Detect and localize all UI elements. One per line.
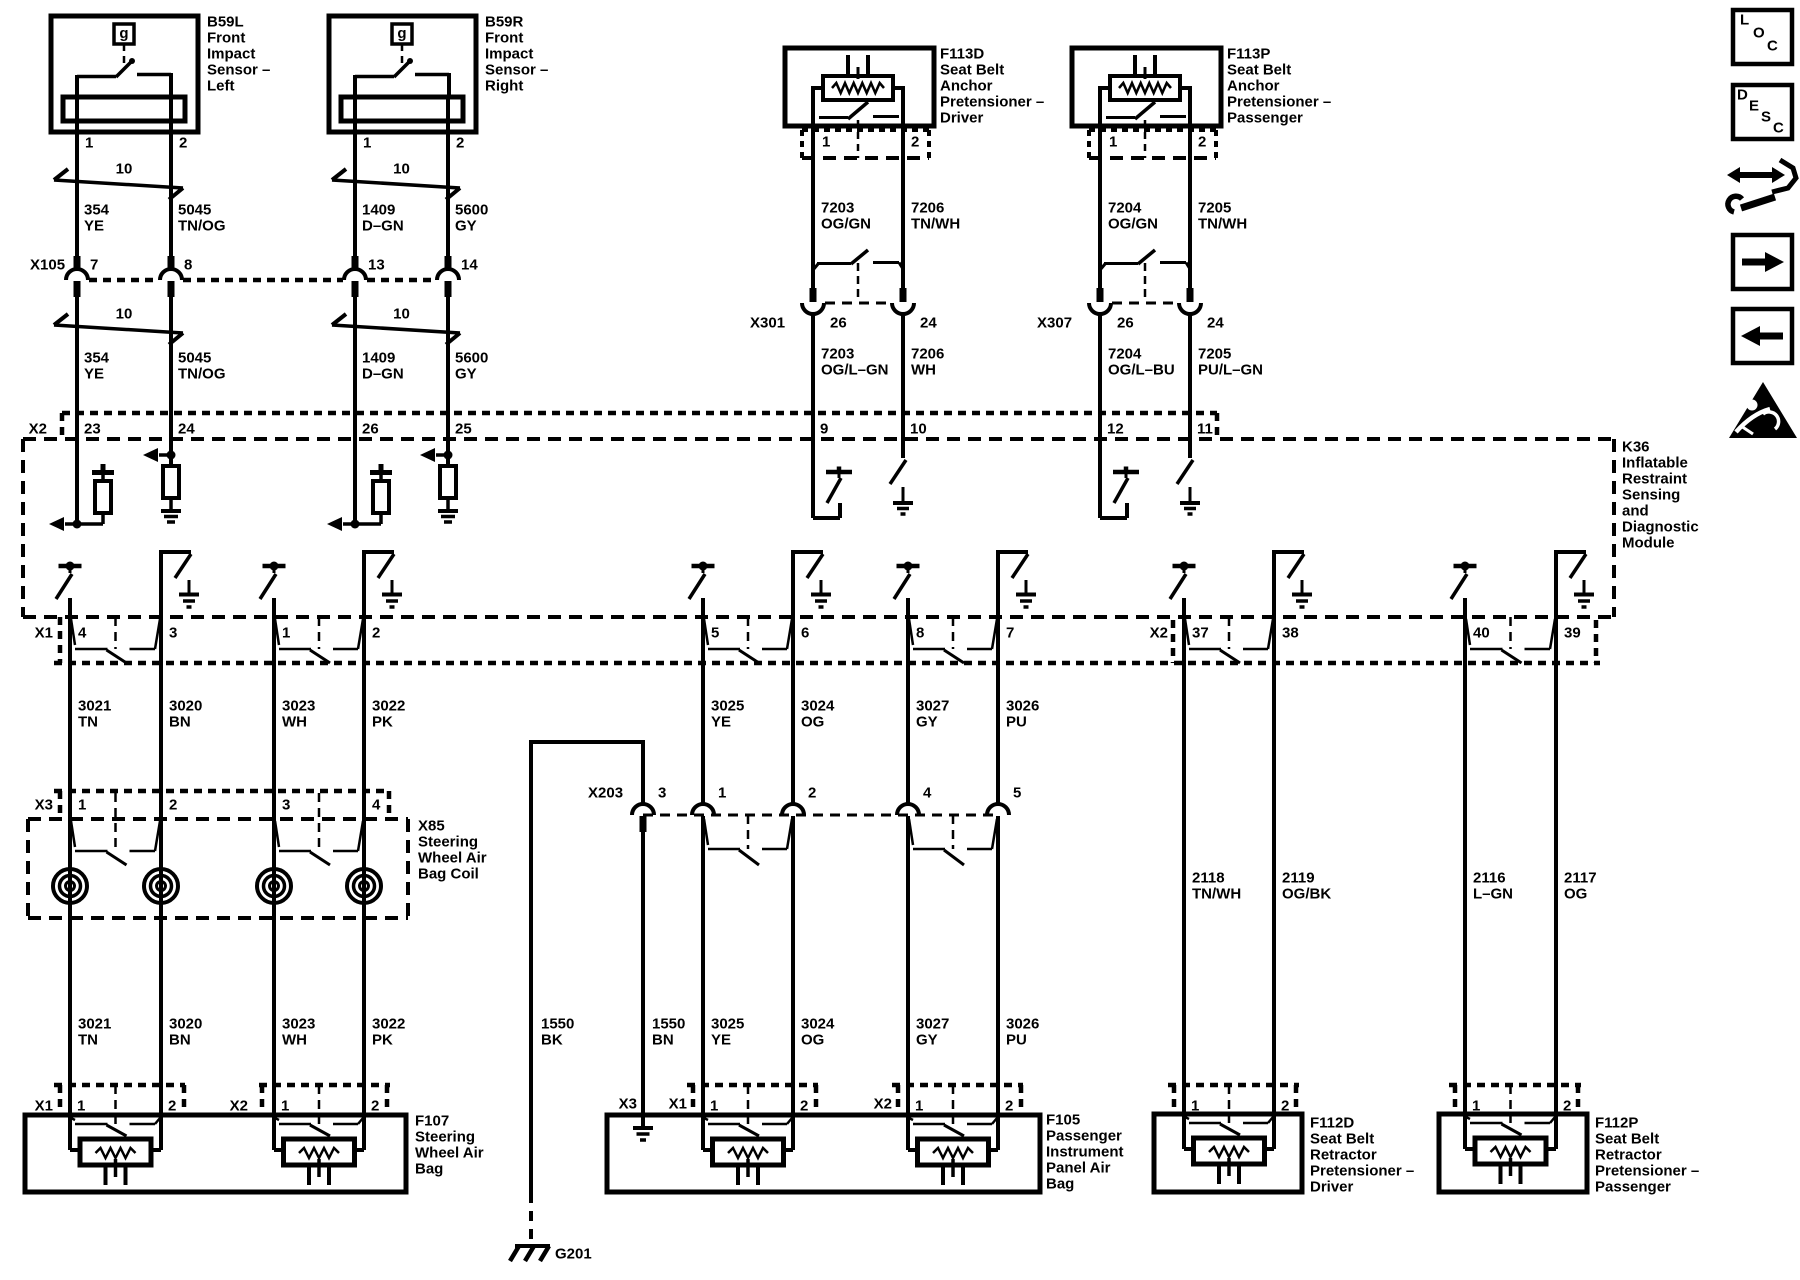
F113P connector pins 1 2 <box>1089 128 1216 132</box>
svg-text:7: 7 <box>1006 625 1014 642</box>
svg-text:1409D–GN: 1409D–GN <box>362 202 404 235</box>
F112P Seat Belt Retractor Pretensioner box <box>1439 1114 1587 1192</box>
connector terminal glyph between x908 and x998 <box>909 619 913 645</box>
toolbar icon DESC <box>1733 85 1792 139</box>
svg-text:2118TN/WH: 2118TN/WH <box>1192 870 1241 903</box>
svg-text:B59LFrontImpactSensor –Left: B59LFrontImpactSensor –Left <box>207 14 270 95</box>
F112D squib pedestal <box>1217 1164 1221 1184</box>
wire from driver to X1 pin x1465 <box>1463 598 1467 618</box>
F113P switch actuation dashed line <box>1144 120 1147 158</box>
svg-text:37: 37 <box>1192 625 1209 642</box>
svg-text:E: E <box>1749 98 1759 115</box>
svg-text:K36InflatableRestraintSensinga: K36InflatableRestraintSensingandDiagnost… <box>1622 439 1699 552</box>
K36 squib driver switch pin x274 <box>263 564 286 569</box>
svg-text:26: 26 <box>362 421 379 438</box>
toolbar icon LOC <box>1733 10 1792 64</box>
B59L internal switch <box>116 61 132 77</box>
connector terminal glyph between x703 and x793 <box>704 819 708 845</box>
svg-text:10: 10 <box>116 161 133 178</box>
svg-text:354YE: 354YE <box>84 202 110 235</box>
K36 internal ground pin x171 <box>161 509 181 513</box>
svg-text:5: 5 <box>711 625 719 642</box>
X85 Steering Wheel Air Bag Coil box <box>28 817 408 821</box>
F105 connector X2 row <box>892 1083 1023 1088</box>
F107 squib wires x70 <box>68 1118 72 1150</box>
wire 7203 OG/L&#8211;GN X301 to K36 <box>811 314 815 439</box>
F112P squib resistor <box>1475 1138 1546 1164</box>
twisted pair symbol at x77 <box>54 325 183 333</box>
svg-text:11: 11 <box>1197 421 1213 438</box>
F113P squib leads <box>1100 86 1110 90</box>
F112D Seat Belt Retractor Pretensioner box <box>1154 1114 1302 1192</box>
K36 internal ground near pin x793 <box>820 580 823 593</box>
svg-text:G201: G201 <box>555 1246 592 1263</box>
connector terminal glyph between x274 and x364 <box>275 619 279 645</box>
svg-text:3025YE: 3025YE <box>711 698 744 731</box>
K36 squib driver switch pin x70 <box>59 564 82 569</box>
K36 connector X1 X2 bottom row <box>54 661 1600 666</box>
svg-text:X1: X1 <box>669 1096 687 1113</box>
svg-text:X105: X105 <box>30 257 65 274</box>
svg-text:2: 2 <box>168 1098 176 1115</box>
wire 3020 BN K36 to X85 coil <box>159 618 163 1118</box>
svg-text:26: 26 <box>830 315 847 332</box>
svg-text:10: 10 <box>116 306 133 323</box>
connector terminal glyph between x70 and x161 <box>71 619 75 645</box>
F113D internal switch <box>819 116 848 119</box>
wire 3026 PU K36 to X203 <box>996 618 1000 806</box>
F113D connector pins 1 2 <box>802 128 929 132</box>
svg-text:B59RFrontImpactSensor –Right: B59RFrontImpactSensor –Right <box>485 14 548 95</box>
svg-text:5: 5 <box>1013 785 1021 802</box>
F112P squib pedestal <box>1499 1164 1503 1184</box>
F112P squib wires <box>1463 1117 1467 1149</box>
F107 Steering Wheel Air Bag box <box>25 1115 406 1192</box>
svg-text:3022PK: 3022PK <box>372 1016 405 1049</box>
K36 internal ground near pin x161 <box>188 580 191 593</box>
connector terminal glyph between x703 and x793 <box>704 1118 708 1120</box>
ground G201 <box>515 1244 550 1248</box>
svg-text:2: 2 <box>372 625 380 642</box>
clockspring coil at x364 <box>347 869 381 903</box>
svg-text:3023WH: 3023WH <box>282 1016 315 1049</box>
svg-text:12: 12 <box>1107 421 1124 438</box>
connector terminal glyph between x1465 and x1556 <box>1466 619 1470 645</box>
wire 3025 YE K36 to X203 <box>701 618 705 806</box>
F113P squib resistor <box>1110 76 1180 100</box>
svg-text:3024OG: 3024OG <box>801 698 835 731</box>
svg-text:S: S <box>1761 109 1771 126</box>
connector terminal glyph between x1184 and x1274 <box>1185 1117 1189 1119</box>
svg-text:2119OG/BK: 2119OG/BK <box>1282 870 1331 903</box>
svg-text:L: L <box>1740 12 1749 29</box>
connector terminal glyph between x908 and x998 <box>909 1118 913 1120</box>
wire 7206 TN/WH pretensioner to X301 <box>901 126 905 290</box>
ground bridge wire 1550 <box>531 740 643 744</box>
svg-text:24: 24 <box>178 421 195 438</box>
svg-text:g: g <box>397 25 406 42</box>
F113D squib tube <box>846 55 850 78</box>
svg-text:38: 38 <box>1282 625 1299 642</box>
svg-text:2116L–GN: 2116L–GN <box>1473 870 1513 903</box>
wire 7205 PU/L&#8211;GN X301 to K36 <box>1188 314 1192 439</box>
wire 3022 PK K36 to X85 coil <box>362 618 366 1118</box>
svg-text:7203OG/L–GN: 7203OG/L–GN <box>821 346 889 379</box>
svg-text:1550BK: 1550BK <box>541 1016 574 1049</box>
svg-text:F113DSeat BeltAnchorPretension: F113DSeat BeltAnchorPretensioner –Driver <box>940 46 1044 127</box>
svg-text:10: 10 <box>393 161 410 178</box>
F107 squib wires x274 <box>272 1118 276 1150</box>
B59R g-sensor symbol <box>392 24 412 44</box>
B59R internal switch <box>394 61 410 77</box>
B59R sensor element plate <box>341 97 463 121</box>
toolbar icon back arrow <box>1733 309 1792 363</box>
clockspring coil at x161 <box>144 869 178 903</box>
K36 switch to ground pin x903 <box>901 439 905 458</box>
B59L sensor element plate <box>63 97 185 121</box>
K36 switch to ground pin x1190 <box>1188 439 1192 458</box>
K36 squib return switch to ground pin x1556 <box>1554 552 1558 618</box>
K36 squib return switch to ground pin x161 <box>159 552 163 618</box>
svg-text:1: 1 <box>718 785 726 802</box>
svg-text:D: D <box>1737 87 1748 104</box>
svg-text:8: 8 <box>916 625 924 642</box>
svg-text:1: 1 <box>281 1098 289 1115</box>
svg-text:26: 26 <box>1117 315 1134 332</box>
svg-text:6: 6 <box>801 625 809 642</box>
svg-text:1: 1 <box>1472 1098 1480 1115</box>
K36 connector X2 row <box>62 411 1217 416</box>
toolbar icon forward arrow <box>1733 235 1792 289</box>
connector terminal glyph between x908 and x998 <box>909 819 913 845</box>
svg-text:g: g <box>119 25 128 42</box>
svg-text:3024OG: 3024OG <box>801 1016 835 1049</box>
F105 squib pedestal <box>736 1165 740 1185</box>
F112P connector row <box>1449 1083 1581 1088</box>
svg-text:40: 40 <box>1473 625 1490 642</box>
toolbar icon wrench with arrows <box>1734 172 1778 178</box>
svg-text:C: C <box>1773 120 1784 137</box>
svg-text:2: 2 <box>911 134 919 151</box>
svg-text:9: 9 <box>820 421 828 438</box>
svg-text:2: 2 <box>1005 1098 1013 1115</box>
inline connector X105 <box>89 278 159 283</box>
svg-text:1: 1 <box>78 797 86 814</box>
K36 internal ground near pin x1556 <box>1583 580 1586 593</box>
svg-text:3020BN: 3020BN <box>169 698 202 731</box>
B59L g-sensor symbol <box>114 24 134 44</box>
K36 squib driver switch pin x1465 <box>1454 564 1477 569</box>
svg-text:X307: X307 <box>1037 315 1072 332</box>
svg-text:4: 4 <box>78 625 87 642</box>
svg-text:X1: X1 <box>35 625 53 642</box>
svg-text:X2: X2 <box>874 1096 892 1113</box>
svg-text:7206WH: 7206WH <box>911 346 944 379</box>
svg-text:1: 1 <box>363 135 371 152</box>
F105 squib wires x703 <box>701 1118 705 1150</box>
wire 5045 TN/OG sensor to X105 <box>169 99 173 257</box>
F107 squib pedestal <box>104 1165 108 1185</box>
twisted pair symbol at x355 <box>332 180 460 188</box>
svg-text:4: 4 <box>923 785 932 802</box>
connector terminal glyph between x1184 and x1274 <box>1185 619 1189 645</box>
F113D switch actuation dashed line <box>857 120 860 158</box>
wire 3024 OG X203 to F105 <box>791 816 795 1118</box>
wire 3025 YE X203 to F105 <box>701 816 705 1118</box>
svg-text:X2: X2 <box>1150 625 1168 642</box>
connector terminal glyph between x70 and x161 <box>71 1118 75 1120</box>
svg-text:3: 3 <box>282 797 290 814</box>
wire from driver to X1 pin x1184 <box>1182 598 1186 618</box>
svg-text:3026PU: 3026PU <box>1006 698 1039 731</box>
svg-text:1409D–GN: 1409D–GN <box>362 350 404 383</box>
svg-text:2117OG: 2117OG <box>1564 870 1597 903</box>
svg-text:5045TN/OG: 5045TN/OG <box>178 202 226 235</box>
svg-text:1: 1 <box>1109 134 1117 151</box>
F107 squib resistor <box>80 1139 151 1165</box>
seat belt anchor pretensioner F113P box <box>1072 48 1221 126</box>
svg-text:2: 2 <box>1563 1098 1571 1115</box>
K36 squib return switch to ground pin x364 <box>362 552 366 618</box>
F107 connector X1 row <box>54 1083 185 1088</box>
F107 squib resistor <box>284 1139 355 1165</box>
svg-text:10: 10 <box>910 421 927 438</box>
svg-text:2: 2 <box>456 135 464 152</box>
svg-text:2: 2 <box>808 785 816 802</box>
wire x77 X105 to K36 X2 <box>75 297 79 439</box>
svg-text:2: 2 <box>179 135 187 152</box>
svg-text:3022PK: 3022PK <box>372 698 405 731</box>
K36 sensing resistor circuit pin x355 <box>353 439 357 524</box>
connector terminal glyph between x70 and x161 <box>71 821 75 847</box>
K36 bias resistor to ground pin x171 <box>169 439 173 468</box>
svg-text:X203: X203 <box>588 785 623 802</box>
clockspring coil at x274 <box>257 869 291 903</box>
K36 squib return switch to ground pin x1274 <box>1272 552 1276 618</box>
clockspring coil at x70 <box>53 869 87 903</box>
wire 7206 WH X301 to K36 <box>901 314 905 439</box>
svg-text:F112PSeat BeltRetractorPretens: F112PSeat BeltRetractorPretensioner –Pas… <box>1595 1115 1699 1196</box>
K36 bias resistor to ground pin x448 <box>446 439 450 468</box>
svg-text:F105PassengerInstrumentPanel A: F105PassengerInstrumentPanel AirBag <box>1046 1112 1124 1193</box>
svg-text:1: 1 <box>282 625 290 642</box>
seat belt switch at x813 <box>813 264 818 270</box>
connector terminal glyph between x274 and x364 <box>275 821 279 847</box>
inline connector X307 <box>1112 302 1178 305</box>
K36 squib driver switch pin x703 <box>692 564 715 569</box>
F105 X3 ground <box>641 1115 645 1127</box>
twisted pair symbol at x77 <box>54 180 183 188</box>
svg-text:3: 3 <box>169 625 177 642</box>
wire x171 X105 to K36 X2 <box>169 297 173 439</box>
svg-text:7204OG/L–BU: 7204OG/L–BU <box>1108 346 1175 379</box>
wire from driver to X1 pin x274 <box>272 598 276 618</box>
wire 3027 GY K36 to X203 <box>906 618 910 806</box>
svg-text:5600GY: 5600GY <box>455 350 488 383</box>
F112D squib resistor <box>1194 1138 1265 1164</box>
wire 1409 D&#8211;GN sensor to X105 <box>353 99 357 257</box>
wire 2117 OG K36 to retractor pretensioner <box>1554 618 1558 1117</box>
svg-text:3025YE: 3025YE <box>711 1016 744 1049</box>
svg-text:3027GY: 3027GY <box>916 698 949 731</box>
F113P squib tube <box>1133 55 1137 78</box>
svg-text:7: 7 <box>90 257 98 274</box>
wire 7203 OG/GN pretensioner to X301 <box>811 126 815 290</box>
svg-text:25: 25 <box>455 421 472 438</box>
svg-text:3021TN: 3021TN <box>78 1016 111 1049</box>
wire 5600 GY sensor to X105 <box>446 99 450 257</box>
wire 3024 OG K36 to X203 <box>791 618 795 806</box>
F113D squib leads <box>813 86 823 90</box>
wire 7204 OG/GN pretensioner to X301 <box>1098 126 1102 290</box>
svg-text:23: 23 <box>84 421 101 438</box>
svg-text:X3: X3 <box>35 797 53 814</box>
F112D connector row <box>1168 1083 1299 1088</box>
front impact sensor B59L box <box>51 16 198 132</box>
svg-text:4: 4 <box>372 797 381 814</box>
svg-text:2: 2 <box>169 797 177 814</box>
wire x355 X105 to K36 X2 <box>353 297 357 439</box>
svg-text:2: 2 <box>371 1098 379 1115</box>
wire 7204 OG/L&#8211;BU X301 to K36 <box>1098 314 1102 439</box>
connector X3 row steering wheel airbag coil <box>54 789 390 794</box>
svg-text:F107SteeringWheel AirBag: F107SteeringWheel AirBag <box>415 1113 484 1178</box>
K36 internal ground near pin x1274 <box>1301 580 1304 593</box>
svg-text:1550BN: 1550BN <box>652 1016 685 1049</box>
svg-text:1: 1 <box>710 1098 718 1115</box>
inline connector X301 <box>825 302 891 305</box>
svg-text:1: 1 <box>77 1098 85 1115</box>
K36 internal ground near pin x998 <box>1025 580 1028 593</box>
wire 3027 GY X203 to F105 <box>906 816 910 1118</box>
front impact sensor B59R box <box>329 16 476 132</box>
svg-text:3023WH: 3023WH <box>282 698 315 731</box>
svg-text:13: 13 <box>368 257 385 274</box>
svg-text:39: 39 <box>1564 625 1581 642</box>
toolbar icon airbag warning triangle <box>1729 382 1797 438</box>
K36 sensing resistor circuit pin x77 <box>75 439 79 524</box>
F105 Passenger Instrument Panel Air Bag box <box>607 1115 1040 1192</box>
svg-text:8: 8 <box>184 257 192 274</box>
K36 squib return switch to ground pin x793 <box>791 552 795 618</box>
svg-text:24: 24 <box>920 315 937 332</box>
wire from driver to X1 pin x703 <box>701 598 705 618</box>
wire from driver to X1 pin x70 <box>68 598 72 618</box>
svg-text:2: 2 <box>800 1098 808 1115</box>
twisted pair symbol at x355 <box>332 325 460 333</box>
wire 3023 WH K36 to X85 coil <box>272 618 276 1118</box>
K36 Inflatable Restraint Sensing and Diagnostic Module box <box>23 437 1614 441</box>
F107 squib pedestal <box>307 1165 311 1185</box>
svg-text:3020BN: 3020BN <box>169 1016 202 1049</box>
svg-text:X301: X301 <box>750 315 785 332</box>
K36 squib driver switch pin x1184 <box>1173 564 1196 569</box>
svg-text:2: 2 <box>1281 1098 1289 1115</box>
svg-text:1: 1 <box>85 135 93 152</box>
svg-text:5045TN/OG: 5045TN/OG <box>178 350 226 383</box>
F105 squib resistor <box>918 1139 989 1165</box>
F112D squib wires <box>1182 1117 1186 1149</box>
svg-text:X85SteeringWheel AirBag Coil: X85SteeringWheel AirBag Coil <box>418 818 487 883</box>
wire 3021 TN K36 to X85 coil <box>68 618 72 1118</box>
svg-text:F113PSeat BeltAnchorPretension: F113PSeat BeltAnchorPretensioner –Passen… <box>1227 46 1331 127</box>
connector terminal glyph between x274 and x364 <box>275 1118 279 1120</box>
svg-text:3: 3 <box>658 785 666 802</box>
svg-text:1: 1 <box>915 1098 923 1115</box>
svg-text:24: 24 <box>1207 315 1224 332</box>
F113D squib resistor <box>823 76 893 100</box>
F105 connector X1 row <box>687 1083 818 1088</box>
svg-text:7205PU/L–GN: 7205PU/L–GN <box>1198 346 1263 379</box>
svg-text:C: C <box>1767 38 1778 55</box>
wire 1550 BN X203 to F105 <box>641 816 645 1115</box>
svg-text:354YE: 354YE <box>84 350 110 383</box>
K36 internal ground near pin x364 <box>391 580 394 593</box>
K36 squib return switch to ground pin x998 <box>996 552 1000 618</box>
svg-text:10: 10 <box>393 306 410 323</box>
F105 squib resistor <box>713 1139 784 1165</box>
wire 2119 OG/BK K36 to retractor pretensioner <box>1272 618 1276 1117</box>
K36 deployment loop driver pin x813 <box>811 439 815 518</box>
svg-text:14: 14 <box>461 257 478 274</box>
wire 3026 PU X203 to F105 <box>996 816 1000 1118</box>
svg-text:3027GY: 3027GY <box>916 1016 949 1049</box>
svg-text:X3: X3 <box>619 1096 637 1113</box>
svg-text:3026PU: 3026PU <box>1006 1016 1039 1049</box>
seat belt switch at x1100 <box>1100 264 1105 270</box>
connector terminal glyph between x703 and x793 <box>704 619 708 645</box>
svg-text:F112DSeat BeltRetractorPretens: F112DSeat BeltRetractorPretensioner –Dri… <box>1310 1115 1414 1196</box>
svg-text:X2: X2 <box>230 1098 248 1115</box>
wire 354 YE sensor to X105 <box>75 99 79 257</box>
svg-text:1: 1 <box>822 134 830 151</box>
svg-text:7205TN/WH: 7205TN/WH <box>1198 200 1247 233</box>
svg-text:7203OG/GN: 7203OG/GN <box>821 200 871 233</box>
connector terminal glyph between x1465 and x1556 <box>1466 1117 1470 1119</box>
seat belt anchor pretensioner F113D box <box>785 48 934 126</box>
F107 connector X2 row <box>259 1083 390 1088</box>
svg-text:5600GY: 5600GY <box>455 202 488 235</box>
K36 deployment loop driver pin x1100 <box>1098 439 1102 518</box>
wire from driver to X1 pin x908 <box>906 598 910 618</box>
svg-text:X2: X2 <box>29 421 47 438</box>
F105 squib pedestal <box>941 1165 945 1185</box>
svg-text:7206TN/WH: 7206TN/WH <box>911 200 960 233</box>
F113P internal switch <box>1106 116 1135 119</box>
svg-text:3021TN: 3021TN <box>78 698 111 731</box>
wire 2118 TN/WH K36 to retractor pretensioner <box>1182 618 1186 1117</box>
F105 squib wires x908 <box>906 1118 910 1150</box>
K36 internal ground pin x448 <box>438 509 458 513</box>
wire 7205 TN/WH pretensioner to X301 <box>1188 126 1192 290</box>
svg-text:2: 2 <box>1198 134 1206 151</box>
wire x448 X105 to K36 X2 <box>446 297 450 439</box>
K36 squib driver switch pin x908 <box>897 564 920 569</box>
inline connector X203 <box>643 814 998 817</box>
wire 2116 L&#8211;GN K36 to retractor pretensioner <box>1463 618 1467 1117</box>
svg-text:7204OG/GN: 7204OG/GN <box>1108 200 1158 233</box>
svg-text:1: 1 <box>1191 1098 1199 1115</box>
svg-text:O: O <box>1753 25 1765 42</box>
svg-text:X1: X1 <box>35 1098 53 1115</box>
